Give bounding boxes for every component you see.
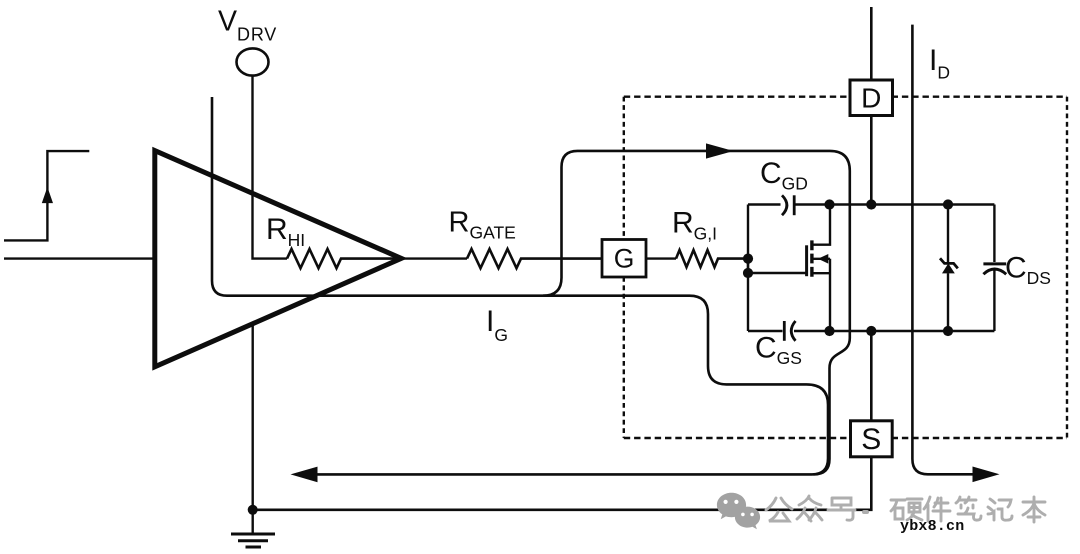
- 笔: [956, 497, 981, 520]
- input step waveform: [4, 151, 89, 240]
- wire driver to ground: [251, 324, 253, 510]
- 记: [988, 499, 1012, 520]
- junction dots on rails: [824, 199, 834, 209]
- V_DRV terminal circle: [237, 48, 269, 75]
- mosfet Q1: [807, 205, 830, 332]
- 公: [766, 498, 792, 521]
- gate current loop path (lower, from driver through source return): [212, 97, 828, 474]
- 众: [797, 496, 822, 521]
- ground return wire from S box: [253, 457, 872, 510]
- 号: [828, 498, 855, 520]
- dashed MOSFET model boundary box: [624, 97, 1067, 438]
- top rail wire (drain row): [748, 203, 994, 205]
- wire G to R_G,I: [646, 257, 676, 259]
- 硬: [891, 499, 922, 520]
- gate branch vertical wire: [747, 205, 749, 332]
- capacitor C_GS: [783, 321, 786, 341]
- wire V_DRV down to R_HI: [253, 76, 288, 259]
- ·: [864, 510, 867, 514]
- mosfet body arrow: [818, 254, 828, 264]
- watermark chinese text (hand-drawn strokes): [766, 496, 1045, 522]
- wire input to driver: [4, 257, 155, 259]
- I_D current path with arrow: [912, 25, 973, 475]
- terminal box G: [602, 240, 646, 278]
- input step arrowhead: [42, 187, 53, 203]
- ground symbol: [231, 510, 275, 547]
- terminal box D: [850, 80, 893, 116]
- mosfet Q1 gate wire: [748, 272, 807, 274]
- resistor R_G,I: [676, 250, 748, 267]
- watermark wechat icon: [717, 493, 760, 530]
- capacitor C_GD: [782, 195, 787, 215]
- body diode D1: [947, 205, 949, 264]
- wire drain to D box: [870, 7, 873, 80]
- loop return arrowhead (left): [291, 467, 318, 483]
- driver op-amp U1 triangle: [155, 151, 401, 367]
- svg-text:D: D: [861, 83, 881, 114]
- loop forward arrowhead (right): [706, 143, 734, 158]
- terminal box S: [851, 421, 893, 457]
- ground junction dot: [248, 505, 258, 515]
- svg-text:ybx8.cn: ybx8.cn: [900, 518, 964, 535]
- resistor R_GATE: [467, 249, 602, 268]
- capacitor C_DS: [993, 205, 995, 263]
- internal gate node wire and junction dots: [747, 259, 749, 273]
- wire driver output: [401, 257, 467, 259]
- 件: [924, 497, 950, 521]
- svg-text:G: G: [614, 244, 635, 274]
- gate current loop path (upper branch over to drain side): [543, 151, 850, 475]
- resistor R_HI: [287, 249, 401, 268]
- bottom rail wire (source row): [748, 330, 994, 332]
- 本: [1023, 497, 1045, 522]
- wire source to S box: [870, 331, 873, 421]
- svg-text:S: S: [861, 423, 881, 456]
